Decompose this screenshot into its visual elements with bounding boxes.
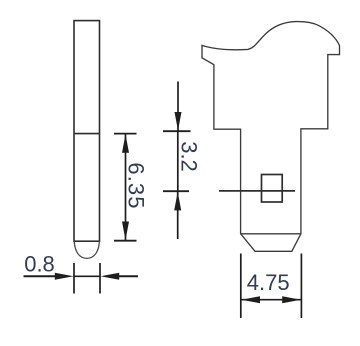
svg-text:4.75: 4.75: [247, 270, 290, 295]
dim 0.8 left extension line: [73, 263, 75, 294]
dim 6.35 line: [125, 134, 127, 241]
dim 3.2 upper line: [177, 82, 179, 132]
dim 6.35 bottom tick: [114, 240, 137, 242]
dim 0.8 right leader: [118, 275, 138, 277]
tab chamfer shoulder line: [241, 233, 301, 235]
square hole in tab: [262, 175, 283, 203]
dim 6.35 top tick: [114, 133, 137, 135]
dim 3.2 middle line: [177, 131, 179, 191]
svg-text:3.2: 3.2: [177, 141, 202, 172]
dim 0.8 middle line: [74, 275, 100, 277]
dim 4.75 left extension line: [240, 254, 242, 319]
dim 6.35 arrow down: [122, 222, 129, 241]
dim 4.75 line: [241, 299, 302, 301]
pin outline (left view rectangle): [74, 21, 100, 242]
centerline through hole: [219, 190, 295, 192]
dim 0.8 left arrow: [55, 273, 74, 280]
svg-text:6.35: 6.35: [124, 162, 149, 209]
dim 3.2 bottom tick: [163, 190, 189, 192]
pin rounded tip: [74, 241, 99, 258]
dim 0.8 right extension line: [99, 263, 101, 294]
dim 4.75 right arrow: [282, 296, 301, 303]
dim 0.8 left leader: [24, 275, 57, 277]
dim 3.2 arrow down: [175, 112, 182, 131]
dim 4.75 left arrow: [241, 296, 260, 303]
terminal body outline (right view): [202, 22, 340, 252]
dim 0.8 right arrow: [101, 273, 120, 280]
dim 4.75 right extension line: [300, 254, 302, 319]
dim 3.2 arrow up: [174, 192, 181, 211]
dim 3.2 top tick: [163, 130, 191, 132]
pin divider line: [74, 133, 100, 135]
dim 6.35 arrow up: [122, 134, 129, 153]
dim 3.2 lower line: [177, 191, 179, 239]
svg-text:0.8: 0.8: [24, 252, 55, 277]
